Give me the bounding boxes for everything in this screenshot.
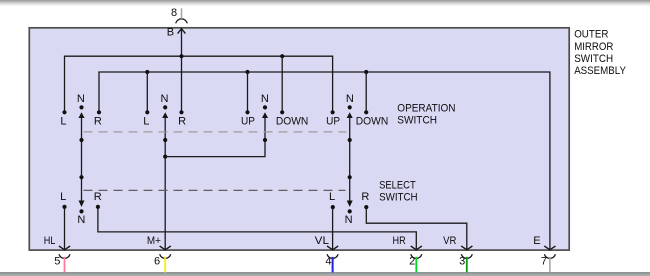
label OPERATION SWITCH: [397, 102, 455, 126]
svg-text:L: L: [143, 115, 149, 127]
label SELECT SWITCH: [379, 180, 418, 204]
svg-text:SWITCH: SWITCH: [379, 192, 418, 204]
wire stub pin 6: [164, 257, 166, 273]
svg-text:R: R: [94, 115, 102, 127]
wire stub pin 4: [332, 257, 334, 273]
arrow M+: [160, 246, 171, 250]
svg-text:R: R: [94, 191, 102, 203]
select switch right wiper: [347, 175, 353, 207]
svg-text:VL: VL: [315, 235, 329, 247]
dashed mechanical link select switch: [84, 189, 346, 191]
label OUTER MIRROR SWITCH ASSEMBLY: [574, 29, 626, 77]
operation switch SW4 wiper: [347, 112, 353, 205]
pin 6 connector: [154, 254, 171, 267]
arrow VL: [327, 246, 338, 250]
svg-text:HL: HL: [44, 235, 56, 247]
operation switch SW2 wiper / M+ feed: [162, 112, 168, 250]
arrow E: [544, 246, 555, 250]
arrow VR: [461, 246, 472, 250]
operation switch SW3 wiper: [165, 112, 268, 156]
pin 2 connector: [409, 254, 422, 267]
svg-text:N: N: [77, 93, 85, 105]
junction bus1-B: [179, 54, 183, 58]
svg-text:VR: VR: [443, 235, 456, 247]
svg-text:5: 5: [54, 255, 60, 267]
wire stub pin 2: [415, 257, 417, 273]
select switch left R contact: [94, 191, 102, 209]
wire bus1 drop to DOWN3: [281, 56, 283, 112]
dashed mechanical link operation switch: [84, 131, 347, 133]
svg-text:MIRROR: MIRROR: [574, 41, 613, 53]
arrow HL: [59, 246, 70, 250]
svg-text:R: R: [178, 115, 186, 127]
operation switch SW1 L-R contacts: [60, 93, 101, 128]
wire VL from select right L: [332, 208, 334, 249]
select switch right L contact: [329, 191, 335, 209]
wire stub pin 5: [64, 257, 66, 273]
svg-text:SELECT: SELECT: [379, 180, 416, 192]
svg-text:M+: M+: [147, 235, 161, 247]
junction bus1-DOWN3: [280, 54, 284, 58]
wire bus2 drop to UP3: [247, 72, 249, 112]
operation switch SW3 UP-DOWN contacts: [241, 93, 308, 128]
wire HR from select left R: [98, 208, 416, 250]
wire HL from select left L: [64, 208, 66, 250]
svg-text:R: R: [361, 191, 369, 203]
wire bus2 drop to DOWN4: [365, 72, 367, 112]
wire stub pin 7: [549, 257, 551, 273]
bus wire 1: [65, 56, 333, 112]
svg-text:N: N: [346, 93, 354, 105]
pin 8 connector: [171, 7, 187, 23]
wire B feed arrow: [178, 29, 186, 113]
wire bus2 drop to L2: [146, 72, 148, 112]
operation switch SW1 wiper: [79, 112, 85, 205]
select switch left L contact: [60, 191, 66, 209]
svg-text:N: N: [261, 93, 269, 105]
wire stub pin 3: [466, 257, 468, 273]
svg-text:8: 8: [171, 7, 177, 19]
svg-text:OPERATION: OPERATION: [397, 102, 455, 114]
svg-text:DOWN: DOWN: [356, 115, 389, 127]
junction bus2-L2: [145, 70, 149, 74]
svg-text:L: L: [60, 115, 66, 127]
svg-text:UP: UP: [241, 115, 255, 127]
select switch left wiper: [79, 175, 85, 207]
outer mirror switch assembly box: [29, 28, 569, 250]
operation switch SW4 UP-DOWN contacts: [326, 93, 388, 128]
svg-text:E: E: [533, 235, 540, 247]
svg-text:N: N: [161, 93, 169, 105]
svg-text:L: L: [329, 191, 335, 203]
select switch right N contact: [345, 209, 353, 226]
svg-text:SWITCH: SWITCH: [397, 114, 437, 126]
pin 4 connector: [325, 254, 338, 267]
svg-text:HR: HR: [393, 235, 406, 247]
wire stub pin 8: [181, 8, 183, 18]
svg-text:ASSEMBLY: ASSEMBLY: [574, 65, 626, 77]
svg-text:L: L: [60, 191, 66, 203]
select switch left N contact: [77, 209, 85, 226]
pin 7 connector: [541, 254, 556, 267]
arrow HR: [411, 246, 422, 250]
svg-text:DOWN: DOWN: [276, 115, 309, 127]
select switch right R contact: [361, 191, 369, 209]
operation switch SW2 L-R contacts: [143, 93, 186, 128]
junction bus2-DOWN4: [364, 70, 368, 74]
svg-text:OUTER: OUTER: [574, 29, 608, 41]
svg-text:6: 6: [154, 255, 160, 267]
svg-text:N: N: [77, 214, 85, 226]
wire VR from select right R: [366, 208, 467, 249]
pin 5 connector: [54, 254, 70, 267]
svg-text:N: N: [345, 214, 353, 226]
svg-text:SWITCH: SWITCH: [574, 53, 613, 65]
svg-text:UP: UP: [326, 115, 340, 127]
junction bus2-UP3: [245, 70, 249, 74]
pin 3 connector: [459, 254, 472, 267]
svg-text:B: B: [167, 27, 174, 39]
bus wire 2 with E drop: [99, 72, 550, 250]
